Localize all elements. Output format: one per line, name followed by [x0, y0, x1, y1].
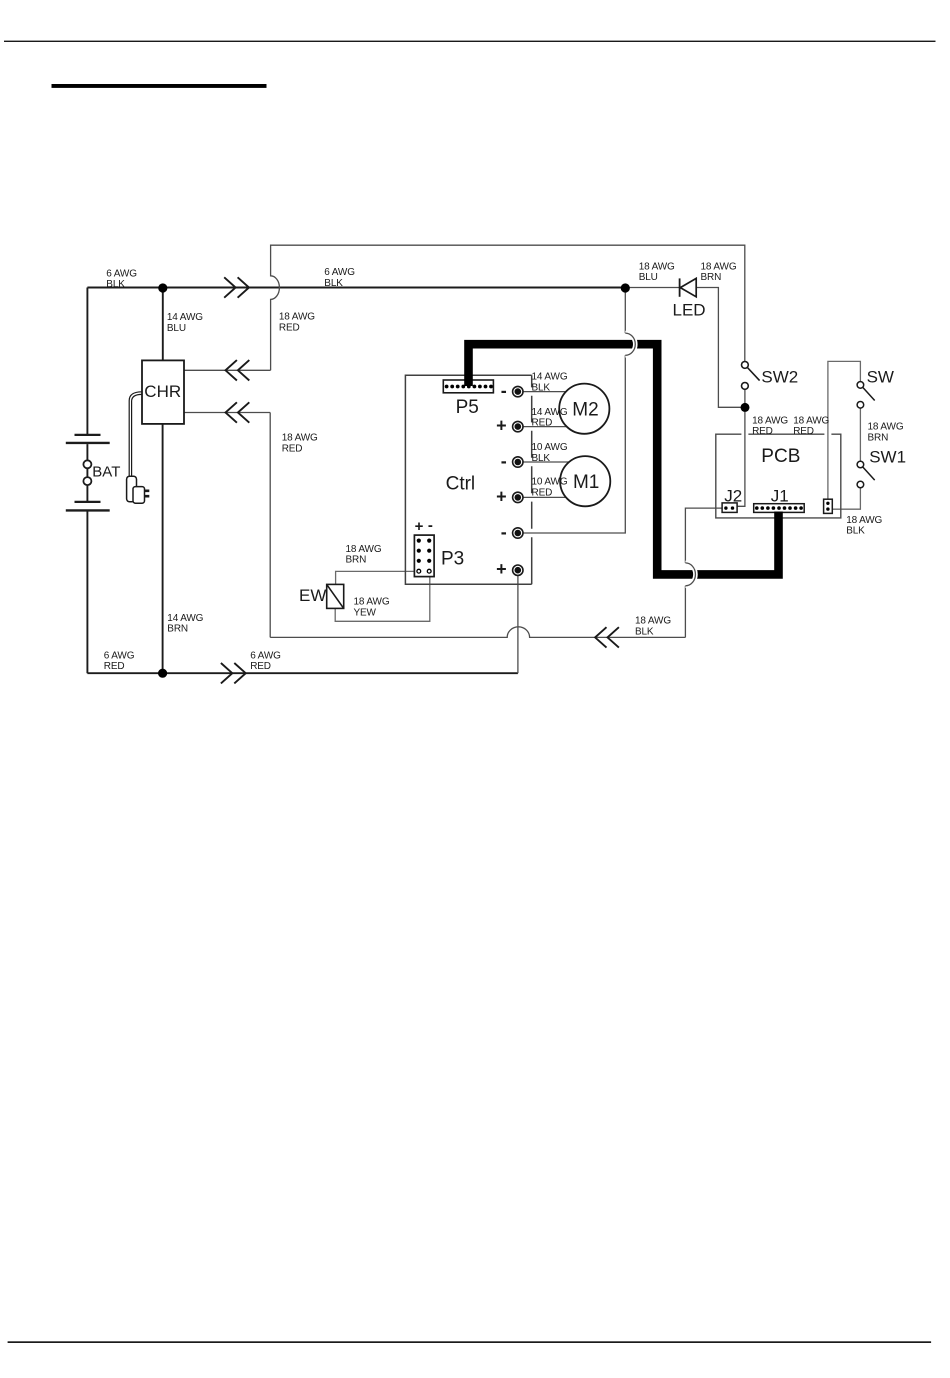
svg-text:BLU: BLU — [639, 272, 658, 283]
Ctrl terminal 4 positive — [513, 492, 523, 502]
hop of BLU wire over thick cable — [625, 333, 635, 355]
svg-text:+: + — [496, 486, 507, 506]
charger mains cord — [129, 392, 142, 477]
svg-text:P3: P3 — [441, 548, 464, 569]
wire 18 AWG RED PCB aux connector riser and loop top — [828, 361, 861, 499]
svg-text:18 AWG: 18 AWG — [282, 433, 318, 444]
svg-text:+: + — [415, 518, 424, 535]
junction node bottom bus / CHR return — [158, 669, 167, 678]
svg-text:-: - — [501, 522, 507, 542]
svg-text:18 AWG: 18 AWG — [639, 261, 675, 272]
svg-text:BLU: BLU — [167, 323, 186, 334]
svg-text:-: - — [501, 381, 507, 401]
wire 18 AWG BLU LED node drop (straight sections) — [624, 288, 626, 333]
svg-text:RED: RED — [532, 488, 553, 499]
resistor EW (element wire) — [327, 584, 344, 608]
switch SW2 — [742, 362, 760, 390]
wire 18 AWG RED CHR output 1 — [184, 369, 271, 371]
wire 18 AWG RED CHR output 2 — [184, 412, 270, 414]
svg-text:RED: RED — [282, 443, 303, 454]
wire 18 AWG BRN LED cathode to SW2 junction — [696, 288, 741, 408]
inline connector arrows CHR output 2 — [226, 402, 250, 422]
connector J1 outline — [754, 504, 805, 513]
svg-text:BRN: BRN — [167, 624, 188, 635]
svg-text:BRN: BRN — [346, 555, 367, 566]
svg-text:M2: M2 — [572, 399, 598, 420]
svg-text:SW: SW — [867, 368, 894, 387]
svg-text:LED: LED — [673, 300, 706, 319]
connector J1 pins — [755, 506, 803, 510]
PCB aux 2-pin connector — [824, 499, 833, 513]
svg-text:18 AWG: 18 AWG — [635, 616, 671, 627]
switch SW1 — [857, 461, 875, 488]
svg-text:YEW: YEW — [354, 607, 377, 618]
svg-text:10 AWG: 10 AWG — [532, 477, 568, 488]
svg-text:-: - — [501, 451, 507, 471]
svg-text:BLK: BLK — [324, 278, 343, 289]
svg-text:6 AWG: 6 AWG — [104, 650, 135, 661]
svg-text:P5: P5 — [456, 397, 479, 418]
svg-text:BLK: BLK — [106, 279, 125, 290]
junction node battery positive / CHR — [158, 283, 167, 292]
svg-text:RED: RED — [532, 418, 553, 429]
Ctrl terminal 3 negative — [513, 457, 523, 467]
wire 18 AWG RED loop: riser with hop over BLK bus, top run, drop to SW2 — [271, 245, 745, 370]
motor M2 — [559, 384, 609, 434]
wire LED anode from node — [625, 287, 679, 289]
inline connector arrows bottom RED bus — [221, 663, 246, 683]
svg-text:18 AWG: 18 AWG — [846, 515, 882, 526]
svg-text:18 AWG: 18 AWG — [701, 261, 737, 272]
svg-text:BLK: BLK — [532, 382, 551, 393]
svg-text:BLK: BLK — [846, 526, 865, 537]
wire 6 AWG BLK battery positive bus (top horizontal) — [87, 287, 625, 289]
svg-text:RED: RED — [752, 426, 773, 437]
wire 14 AWG BLU junction to CHR — [162, 288, 164, 361]
svg-text:PCB: PCB — [761, 446, 800, 467]
svg-text:18 AWG: 18 AWG — [279, 312, 315, 323]
svg-text:SW2: SW2 — [761, 368, 798, 387]
thick battery cable P5 to J1 — [469, 344, 779, 574]
svg-text:M1: M1 — [573, 472, 599, 493]
svg-text:14 AWG: 14 AWG — [532, 407, 568, 418]
svg-text:BLK: BLK — [635, 626, 654, 637]
svg-text:BRN: BRN — [701, 272, 722, 283]
svg-text:18 AWG: 18 AWG — [346, 544, 382, 555]
wire battery left vertical (top section) — [86, 288, 88, 435]
wire 18 AWG YEW EW to P3 pin — [335, 574, 430, 621]
battery BAT symbol — [66, 435, 110, 511]
svg-text:-: - — [428, 517, 433, 534]
wire M2 positive 14 AWG RED — [523, 426, 567, 428]
charger CHR box — [142, 360, 184, 424]
wire battery left vertical (bottom section) — [86, 510, 88, 673]
wire M1 positive 10 AWG RED — [523, 496, 566, 498]
wire M1 negative 10 AWG BLK — [523, 461, 568, 463]
connector J2 — [722, 503, 737, 513]
svg-text:14 AWG: 14 AWG — [167, 613, 203, 624]
wire 18 AWG BLK SW1 return to PCB aux connector — [832, 488, 860, 509]
svg-text:RED: RED — [279, 322, 300, 333]
svg-text:18 AWG: 18 AWG — [752, 415, 788, 426]
Ctrl terminal 2 positive — [513, 421, 523, 431]
wire M2 negative 14 AWG BLK — [523, 391, 566, 393]
svg-text:14 AWG: 14 AWG — [532, 372, 568, 383]
svg-text:J1: J1 — [771, 486, 789, 505]
svg-text:RED: RED — [793, 426, 814, 437]
wire 18 AWG BRN EW to P3 pin — [336, 571, 419, 584]
PCB box — [716, 434, 841, 518]
wire 18 AWG BLK riser to J2 left pin (straight sections) — [685, 508, 722, 563]
inline connector arrows CHR output 1 — [226, 360, 250, 380]
connector P3 — [414, 535, 434, 577]
page bottom rule — [8, 1341, 932, 1343]
Ctrl terminal 6 positive — [513, 565, 523, 575]
page top rule — [4, 41, 936, 42]
svg-text:EW: EW — [299, 586, 326, 605]
svg-text:10 AWG: 10 AWG — [532, 442, 568, 453]
charger mains plug — [127, 476, 150, 503]
LED diode — [680, 278, 697, 296]
svg-text:RED: RED — [250, 661, 271, 672]
svg-text:BAT: BAT — [92, 463, 120, 480]
junction node SW2 / LED / J2 feed — [741, 403, 750, 412]
wire 6 AWG RED battery bus (bottom horizontal) — [87, 672, 518, 674]
inline connector arrows top BLK bus — [224, 277, 249, 297]
svg-text:Ctrl: Ctrl — [446, 474, 476, 495]
svg-text:BRN: BRN — [868, 433, 889, 444]
svg-text:RED: RED — [104, 661, 125, 672]
junction node LED / BLU drop — [621, 283, 630, 292]
wire 18 AWG BLK bottom run with hop over riser x=518 — [270, 627, 685, 638]
controller Ctrl box — [405, 375, 531, 584]
svg-text:18 AWG: 18 AWG — [793, 415, 829, 426]
svg-text:6 AWG: 6 AWG — [250, 650, 281, 661]
svg-text:6 AWG: 6 AWG — [324, 267, 355, 278]
wire 18 AWG RED drop at x=270 to bottom BLK run — [269, 413, 271, 638]
hop of J2 BLK wire over thick cable — [685, 563, 695, 586]
svg-text:+: + — [496, 559, 507, 579]
wire 14 AWG BRN CHR to bottom bus — [162, 424, 164, 673]
svg-text:18 AWG: 18 AWG — [354, 597, 390, 608]
wire 6 AWG RED riser to Ctrl plus terminal — [517, 573, 519, 673]
svg-text:14 AWG: 14 AWG — [167, 312, 203, 323]
title underline bar — [52, 84, 267, 88]
wire 18 AWG BRN between SW and SW1 — [859, 408, 861, 461]
connector P5 outline — [443, 380, 493, 393]
svg-text:CHR: CHR — [144, 382, 181, 401]
Ctrl terminal 5 negative — [513, 528, 523, 538]
svg-text:J2: J2 — [724, 486, 742, 505]
inline connector arrows bottom BLK run — [595, 627, 619, 647]
svg-text:+: + — [496, 416, 507, 436]
svg-text:6 AWG: 6 AWG — [106, 269, 137, 280]
svg-text:SW1: SW1 — [869, 448, 906, 467]
connector P5 pins — [445, 385, 493, 389]
switch SW — [857, 382, 875, 409]
svg-text:BLK: BLK — [532, 453, 551, 464]
wire SW2 bottom to junction and down to J2 right pin — [737, 389, 745, 506]
Ctrl terminal 1 negative — [513, 386, 523, 396]
motor M1 — [560, 456, 610, 506]
svg-text:18 AWG: 18 AWG — [868, 422, 904, 433]
